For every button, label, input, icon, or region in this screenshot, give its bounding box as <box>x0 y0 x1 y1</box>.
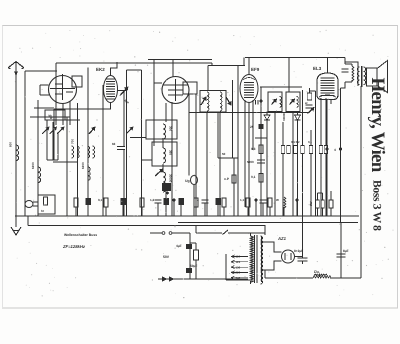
svg-text:Boss 3 W 8: Boss 3 W 8 <box>371 180 383 231</box>
svg-text:1,1: 1,1 <box>240 198 245 202</box>
svg-text:AZ1: AZ1 <box>277 236 287 241</box>
svg-text:6300: 6300 <box>31 162 35 169</box>
svg-text:110: 110 <box>236 255 241 259</box>
svg-text:Wellenschalter Buss: Wellenschalter Buss <box>64 233 97 237</box>
svg-text:0,1 0,2: 0,1 0,2 <box>291 140 300 144</box>
svg-text:ZF=128kHz: ZF=128kHz <box>62 244 86 249</box>
svg-text:0,1: 0,1 <box>251 175 256 179</box>
svg-text:700: 700 <box>71 139 75 144</box>
svg-text:EK2: EK2 <box>96 67 105 72</box>
svg-text:240: 240 <box>236 276 241 280</box>
svg-text:Du.: Du. <box>314 270 320 274</box>
svg-text:50µF: 50µF <box>190 264 197 268</box>
svg-text:0,3: 0,3 <box>251 147 256 151</box>
svg-text:n.P: n.P <box>224 177 230 181</box>
svg-text:50: 50 <box>222 152 226 156</box>
svg-text:8+2µF: 8+2µF <box>294 249 303 253</box>
svg-text:4µF: 4µF <box>176 244 182 248</box>
svg-text:25: 25 <box>250 125 254 129</box>
svg-text:300: 300 <box>169 126 173 131</box>
svg-text:EL3: EL3 <box>313 66 322 71</box>
svg-text:0,1: 0,1 <box>308 140 312 144</box>
svg-text:w: w <box>304 101 308 105</box>
svg-text:365: 365 <box>169 150 173 155</box>
svg-text:W: W <box>276 198 279 202</box>
svg-text:125: 125 <box>236 260 241 264</box>
svg-text:30000: 30000 <box>282 113 286 121</box>
svg-text:30000: 30000 <box>169 174 173 183</box>
svg-text:6300: 6300 <box>81 162 85 169</box>
svg-text:150: 150 <box>236 265 241 269</box>
svg-text:EF9: EF9 <box>251 67 260 72</box>
svg-text:Henry, Wien: Henry, Wien <box>367 78 388 173</box>
svg-text:8µF: 8µF <box>343 249 349 253</box>
svg-text:63: 63 <box>112 142 116 146</box>
svg-text:50V: 50V <box>163 255 170 259</box>
svg-text:4: 4 <box>334 148 336 152</box>
svg-text:3W: 3W <box>309 201 313 206</box>
svg-text:Ug: Ug <box>185 179 190 183</box>
svg-text:1,2: 1,2 <box>150 198 155 202</box>
svg-text:0,1: 0,1 <box>98 198 103 202</box>
svg-text:5000: 5000 <box>247 160 254 164</box>
svg-text:220: 220 <box>236 271 241 275</box>
